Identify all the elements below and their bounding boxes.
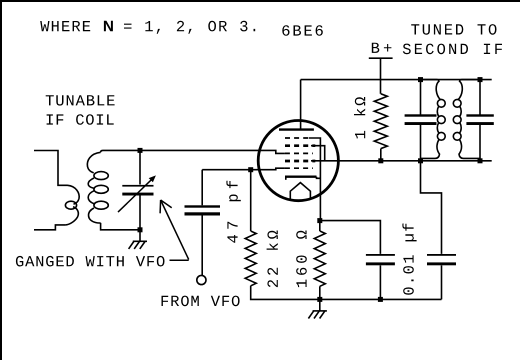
label 1 kOhm (rotated) [354, 97, 365, 138]
label IF COIL [47, 114, 114, 125]
node screen bus capR [478, 158, 483, 163]
resistor R3 160 zigzag [314, 231, 325, 286]
wire varcap bottom [139, 195, 141, 230]
wire tuning capR bottom [479, 125, 481, 161]
transformer T1 primary lead bottom [34, 225, 66, 230]
wire 47pf bottom [201, 216, 203, 276]
tube grid row3 G3 [285, 152, 313, 154]
wire 160 top lead [319, 221, 321, 231]
wire varcap top [139, 150, 141, 184]
tube heater [290, 183, 310, 200]
wire 47pf top [201, 170, 203, 206]
capacitor C5 tuneL plates [405, 114, 437, 125]
transformer T1 secondary curls [94, 172, 108, 180]
transformer T2 right winding lead top [460, 80, 481, 81]
node screen bus capL [418, 158, 423, 163]
label WHERE N = 1, 2, OR 3. [40, 21, 255, 34]
label 6BE6 [282, 25, 323, 36]
border top [0, 0, 520, 2]
cathode left tick [285, 177, 287, 180]
label TUNED TO [411, 24, 496, 35]
capacitor C2 47pf plates [185, 205, 221, 215]
wire tuning capL top [420, 80, 422, 115]
wire bypass1 bottom [379, 265, 381, 299]
tube grid row1 G5 [285, 137, 309, 139]
label 160 Ohm (rotated) [296, 231, 307, 288]
node bypass1 bottom [378, 297, 383, 302]
T1 secondary bottom lead [101, 223, 140, 230]
terminal FROM VFO [197, 275, 206, 284]
ground GND2 [308, 299, 327, 318]
tube plate bar [279, 128, 314, 130]
wire cathode-junction to bypass [320, 221, 381, 254]
varcap C1 plates [122, 185, 153, 196]
wire screen tie [311, 146, 325, 161]
transformer T2 right winding [458, 81, 480, 159]
wire B+ vertical [380, 59, 382, 94]
capacitor C3 bypass1 plates [366, 254, 395, 265]
transformer T1 primary lead top [34, 151, 68, 186]
resistor R2 22k zigzag [245, 231, 256, 286]
node plate bus capL [418, 77, 423, 82]
tube cathode bar [285, 175, 317, 177]
tube grid row5 G1 [285, 167, 313, 169]
transformer T1 primary winding [66, 185, 80, 225]
wire plate lead [300, 80, 302, 130]
wire screen bus [311, 160, 492, 162]
transformer T1 primary curl [65, 201, 76, 209]
node screen-1k [378, 158, 383, 163]
capacitor C4 bypass2 plates [427, 254, 456, 265]
wire to bypass2 [421, 161, 442, 254]
transformer T2 left winding lead top [421, 80, 440, 81]
label 0.01 uf (rotated) [402, 224, 416, 295]
wire bypass2 bottom [441, 265, 443, 299]
wire signal grid [140, 150, 285, 153]
label B+ [372, 43, 392, 53]
label FROM VFO [162, 296, 240, 307]
transformer T2 left curls [437, 99, 445, 107]
wire cathode down [309, 138, 321, 221]
node T1 bottom [138, 227, 143, 232]
capacitor C6 tuneR plates [466, 114, 493, 125]
label SECOND IF [403, 44, 502, 55]
wire tuning capL bottom [420, 125, 422, 161]
node cathode junction [317, 218, 322, 223]
node plate bus capR [478, 77, 483, 82]
transformer T2 left winding [421, 81, 441, 159]
border left [0, 0, 2, 360]
transformer T2 right curls [453, 99, 461, 107]
node T1 top [138, 148, 143, 153]
varcap C1 arrow [118, 177, 154, 212]
tube grid row2 G4 [285, 144, 315, 147]
resistor R1 1k zigzag [374, 94, 387, 149]
tube grid row4 G2 [285, 160, 315, 163]
wire tuning capR top [479, 80, 481, 115]
wire bottom bus [251, 286, 442, 300]
label 22 kOhm (rotated) [267, 231, 278, 288]
wire osc grid [202, 168, 285, 170]
ground GND1 [129, 230, 147, 249]
pointer arrow to varcap [160, 200, 189, 260]
wire 22k top [250, 170, 252, 231]
tube V1 envelope [258, 121, 338, 201]
T1 secondary top lead [101, 150, 140, 152]
label 47 pf (rotated) [226, 181, 240, 243]
transformer T1 secondary winding [87, 152, 100, 223]
B+ underline [369, 57, 393, 59]
wire 160 top [319, 286, 321, 299]
wire plate bus top [301, 79, 492, 81]
label GANGED WITH VFO [16, 256, 165, 267]
cathode right step [317, 177, 321, 179]
node 160 bottom [317, 297, 322, 302]
node osc grid [248, 167, 253, 172]
label TUNABLE [46, 95, 115, 105]
wire 1k bottom [380, 149, 382, 161]
